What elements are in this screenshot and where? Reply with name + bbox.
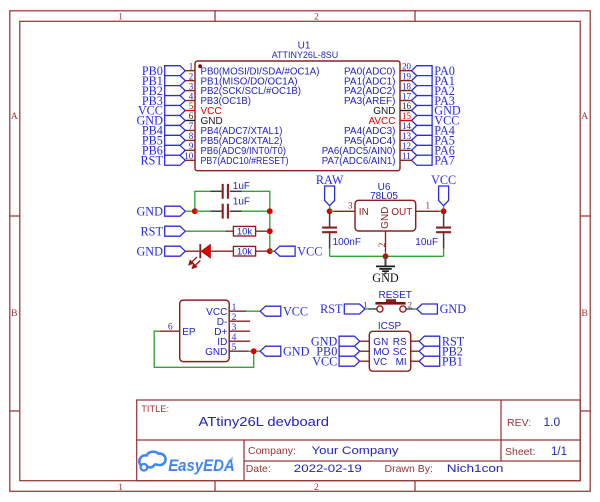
svg-text:14: 14: [402, 121, 412, 131]
svg-text:VC: VC: [373, 357, 387, 368]
J1 pin 3 (D+) stub: [229, 330, 250, 332]
junction output node: [441, 208, 447, 214]
net port PB1 (U1 pin 2): [165, 76, 186, 86]
title block frame: [137, 400, 581, 481]
svg-text:3: 3: [348, 201, 353, 211]
svg-text:1uF: 1uF: [233, 196, 250, 207]
pushbutton SW1 contact 1: [377, 306, 383, 312]
capacitor C3 plates: [223, 204, 228, 219]
svg-text:PB1: PB1: [442, 354, 463, 368]
svg-text:VCC: VCC: [283, 304, 308, 318]
svg-text:11: 11: [402, 151, 411, 161]
net port VCC (USB): [260, 306, 281, 316]
svg-text:2: 2: [232, 313, 237, 323]
net port PB6 (U1 pin 9): [165, 145, 186, 155]
svg-text:Drawn By:: Drawn By:: [385, 463, 433, 475]
U1 pin 13 (PA5(ADC4)) stub: [400, 139, 412, 141]
svg-text:1: 1: [118, 482, 123, 493]
net port PB5 (U1 pin 8): [165, 135, 186, 145]
wire GND to LED: [185, 250, 199, 252]
wire RST port to SW1: [365, 308, 369, 310]
capacitor C5 10uF leads: [443, 211, 445, 227]
U1 pin 11 (PA7(ADC6/AIN1)) stub: [400, 159, 412, 161]
junction cap bottom / right rail: [267, 208, 273, 214]
U1 pin 8 (PB5(ADC8/XTAL2)) stub: [185, 139, 195, 141]
svg-text:1: 1: [426, 201, 431, 211]
wire ground rail: [330, 255, 444, 257]
svg-text:RST: RST: [141, 224, 164, 238]
svg-text:10k: 10k: [237, 247, 253, 258]
wire right vertical: [269, 191, 271, 251]
wire bottom cap left: [195, 210, 211, 212]
svg-text:10uF: 10uF: [415, 237, 438, 248]
svg-text:5: 5: [232, 343, 237, 353]
svg-text:REV:: REV:: [507, 417, 531, 429]
svg-text:2022-02-19: 2022-02-19: [294, 463, 362, 475]
wire RST to R pullup: [185, 230, 225, 232]
resistor R2 10k body: [233, 246, 255, 256]
connector J1 USB body: [180, 300, 230, 362]
EasyEDA logo caret on final A: [230, 456, 233, 460]
U1 pin 19 (PA1(ADC1)) stub: [400, 80, 412, 82]
svg-text:RST: RST: [320, 302, 343, 316]
net port VCC (U1 pin 15): [412, 115, 433, 125]
svg-text:OUT: OUT: [391, 207, 412, 218]
net port VCC (rail): [275, 246, 296, 256]
U1 anchor dot: [198, 64, 202, 68]
svg-text:6: 6: [189, 111, 194, 121]
U1 pin 3 (PB2(SCK/SCL/#OC1B)) stub: [185, 90, 195, 92]
wire 100nF to gnd rail: [329, 249, 331, 257]
junction input node: [327, 208, 333, 214]
J2 right pin 2 stub: [411, 340, 419, 342]
power flag VCC (reg out): [439, 186, 449, 206]
svg-text:PA7(ADC6/AIN1): PA7(ADC6/AIN1): [322, 156, 396, 167]
svg-text:9: 9: [189, 141, 194, 151]
op IC U1 ATTINY26L-8SU body: [195, 61, 400, 171]
net port PA2 (U1 pin 18): [412, 86, 433, 96]
U1 pin 15 (AVCC) stub: [400, 119, 412, 121]
J1 pin 5 (GND) stub: [229, 350, 249, 352]
connector J2 ICSP body: [369, 331, 410, 371]
svg-text:A: A: [11, 111, 18, 122]
U1 pin 10 (PB7(ADC10/#RESET)) stub: [185, 159, 195, 161]
svg-text:A: A: [581, 111, 588, 122]
net port PB0 (U1 pin 1): [165, 66, 186, 76]
svg-text:B: B: [11, 308, 18, 319]
ground symbol: [384, 256, 386, 266]
svg-text:1: 1: [118, 12, 123, 23]
svg-text:1.0: 1.0: [544, 415, 561, 429]
net port PB2 (U1 pin 3): [165, 86, 186, 96]
LED D1 triangle: [201, 244, 210, 258]
svg-text:GND: GND: [136, 204, 163, 218]
junction at GND/caps: [192, 208, 198, 214]
EasyEDA logo cloud: [139, 452, 165, 471]
svg-text:2: 2: [314, 482, 319, 493]
svg-text:2: 2: [189, 71, 194, 81]
svg-text:Nich1con: Nich1con: [447, 463, 504, 475]
net port VCC (ICSP): [339, 356, 360, 366]
svg-text:GND: GND: [372, 271, 399, 285]
U6 pin 2 wire: [385, 231, 387, 252]
LED D1 cathode bar: [199, 244, 201, 258]
svg-text:2: 2: [378, 242, 388, 247]
junction EP/GND: [251, 348, 257, 354]
svg-text:VCC: VCC: [312, 354, 337, 368]
svg-text:1: 1: [232, 303, 237, 313]
U1 pin 6 (GND) stub: [185, 119, 195, 121]
svg-text:3: 3: [189, 81, 194, 91]
svg-text:RST: RST: [141, 153, 164, 167]
net port PB4 (U1 pin 7): [165, 125, 186, 135]
svg-text:7: 7: [189, 121, 194, 131]
wire J1 GND to port: [249, 350, 260, 352]
U1 pin 16 (GND) stub: [400, 110, 412, 112]
svg-text:PA7: PA7: [434, 153, 455, 167]
net port RST (U1 pin 10): [165, 155, 186, 165]
net port PA6 (U1 pin 12): [412, 145, 433, 155]
svg-text:EP: EP: [182, 327, 196, 338]
wire R pullup to rail: [267, 230, 270, 232]
junction pullup/rail: [267, 228, 273, 234]
svg-text:13: 13: [402, 131, 412, 141]
wire EP to GND loop: [154, 331, 254, 367]
svg-text:B: B: [581, 308, 588, 319]
net port PA3 (U1 pin 17): [412, 96, 433, 106]
pushbutton SW1 contact 2: [400, 306, 406, 312]
capacitor C4 plates: [322, 228, 337, 233]
svg-text:12: 12: [402, 141, 411, 151]
J2 left pin 5 stub: [360, 360, 370, 362]
svg-text:ATTINY26L-8SU: ATTINY26L-8SU: [272, 50, 339, 60]
wire LED to R series: [210, 250, 233, 252]
wire rail to VCC port: [270, 250, 275, 252]
net port PA7 (U1 pin 11): [412, 155, 433, 165]
net port PA1 (U1 pin 19): [412, 76, 433, 86]
svg-text:ATtiny26L devboard: ATtiny26L devboard: [199, 414, 330, 429]
U1 pin 14 (PA4(ADC3)) stub: [400, 129, 412, 131]
svg-text:GND: GND: [283, 344, 310, 358]
J1 pin 6 EP stub: [160, 330, 180, 332]
wire left vertical: [194, 191, 196, 211]
pushbutton SW1 actuator: [386, 299, 396, 302]
J1 pin 4 (ID) stub: [229, 340, 250, 342]
R1 right lead: [256, 230, 267, 232]
net port RST (ICSP): [419, 336, 440, 346]
wire J1 VCC to port: [246, 310, 260, 312]
U1 pin 4 (PB3(OC1B)) stub: [185, 100, 195, 102]
J2 right pin 4 stub: [411, 350, 419, 352]
net port VCC (U1 pin 5): [165, 106, 186, 116]
svg-text:6: 6: [168, 323, 173, 333]
J2 right pin 6 stub: [411, 360, 419, 362]
net port PA0 (U1 pin 20): [412, 66, 433, 76]
svg-text:4: 4: [232, 333, 237, 343]
U1 pin 18 (PA2(ADC2)) stub: [400, 90, 412, 92]
U1 pin 17 (PA3(AREF)) stub: [400, 100, 412, 102]
svg-text:5: 5: [189, 101, 194, 111]
svg-text:4: 4: [189, 91, 194, 101]
wire R series to rail: [256, 250, 270, 252]
svg-text:GND: GND: [380, 207, 391, 229]
U1 pin 7 (PB4(ADC7/XTAL1)) stub: [185, 129, 195, 131]
wire VCC to output node: [443, 206, 445, 212]
svg-text:MI: MI: [396, 357, 407, 368]
net port GND (button): [417, 304, 438, 314]
svg-text:1: 1: [189, 61, 194, 71]
svg-text:TITLE:: TITLE:: [141, 404, 169, 414]
net port GND (U1 pin 16): [412, 106, 433, 116]
capacitor C3 1uF bottom: leads: [211, 210, 222, 212]
wire top cap left: [194, 190, 210, 192]
net port PB2 (ICSP): [419, 346, 440, 356]
J2 left pin 1 stub: [360, 340, 370, 342]
svg-text:100nF: 100nF: [333, 237, 361, 248]
R1 left lead: [226, 230, 234, 232]
J1 pin 2 (D-) stub: [229, 320, 250, 322]
svg-text:17: 17: [402, 91, 412, 101]
svg-text:Date:: Date:: [246, 463, 271, 475]
J2 left pin 3 stub: [360, 350, 370, 352]
svg-text:PB7(ADC10/#RESET): PB7(ADC10/#RESET): [201, 156, 289, 167]
net port GND (caps): [165, 206, 186, 216]
svg-text:GND: GND: [205, 347, 227, 358]
net port GND (ICSP): [339, 336, 360, 346]
net port PB1 (ICSP): [419, 356, 440, 366]
svg-text:1uF: 1uF: [233, 181, 250, 192]
svg-text:VCC: VCC: [431, 173, 456, 187]
net port RST (pullup): [165, 226, 186, 236]
svg-text:2: 2: [408, 299, 412, 309]
svg-text:IN: IN: [359, 207, 369, 218]
svg-text:Company:: Company:: [248, 445, 296, 457]
svg-text:VCC: VCC: [297, 244, 322, 258]
net port GND (LED): [165, 246, 186, 256]
net port RST (button): [344, 304, 365, 314]
wire GND port to junction: [185, 210, 195, 212]
svg-text:18: 18: [402, 81, 412, 91]
U6 pin 3 wire: [330, 210, 334, 212]
U1 pin 20 (PA0(ADC0)) stub: [400, 70, 412, 72]
capacitor C5 plates: [436, 228, 451, 233]
capacitor C4 100nF leads: [329, 211, 331, 227]
svg-text:Your Company: Your Company: [312, 445, 400, 457]
svg-text:1/1: 1/1: [551, 446, 567, 458]
U1 pin 2 (PB1(MISO/DO/OC1A)) stub: [185, 80, 195, 82]
power flag RAW: [325, 186, 335, 206]
net port GND (USB): [260, 346, 281, 356]
svg-text:GND: GND: [440, 302, 467, 316]
LED D1 emission arrows: [189, 257, 200, 268]
svg-text:RAW: RAW: [316, 173, 344, 187]
wire RAW to input node: [329, 206, 331, 212]
svg-text:10: 10: [184, 151, 194, 161]
svg-text:20: 20: [402, 61, 412, 71]
junction LED row / rail: [267, 248, 273, 254]
junction ground rail: [383, 253, 389, 259]
svg-text:78L05: 78L05: [370, 191, 398, 202]
svg-text:16: 16: [402, 101, 412, 111]
net port PB3 (U1 pin 4): [165, 96, 186, 106]
U1 pin 12 (PA6(ADC5/AIN0)) stub: [400, 149, 412, 151]
U6 pin 1 wire: [416, 210, 440, 212]
wire 10uF to gnd rail: [443, 249, 445, 257]
svg-text:GND: GND: [136, 244, 163, 258]
svg-text:8: 8: [189, 131, 194, 141]
regulator U6 78L05 body: [355, 200, 416, 231]
U1 pin 1 (PB0(MOSI/DI/SDA/#OC1A)) stub: [185, 70, 195, 72]
wire bottom cap right: [242, 210, 270, 212]
J1 pin 1 (VCC) stub: [229, 310, 246, 312]
svg-text:3: 3: [232, 323, 237, 333]
net port PA4 (U1 pin 14): [412, 125, 433, 135]
capacitor C2 1uF top: leads: [211, 190, 222, 192]
svg-text:15: 15: [402, 111, 412, 121]
net port PA5 (U1 pin 13): [412, 135, 433, 145]
svg-text:19: 19: [402, 71, 412, 81]
svg-text:EasyEDA: EasyEDA: [168, 457, 235, 475]
svg-text:10k: 10k: [237, 227, 253, 238]
net port GND (U1 pin 6): [165, 115, 186, 125]
SW1 pin 2 lead: [406, 308, 414, 310]
capacitor C2 plates: [223, 184, 228, 199]
resistor R1 10k body: [233, 226, 255, 236]
net port PB0 (ICSP): [339, 346, 360, 356]
SW1 pin 1 lead: [368, 308, 377, 310]
svg-text:Sheet:: Sheet:: [505, 446, 535, 458]
U1 pin 9 (PB6(ADC9/INT0/T0)) stub: [185, 149, 195, 151]
U1 pin 5 (VCC) stub: [185, 110, 195, 112]
wire top cap right: [242, 190, 271, 192]
wire SW1 to GND port: [413, 308, 417, 310]
svg-text:ICSP: ICSP: [378, 321, 402, 332]
svg-text:2: 2: [314, 12, 319, 23]
